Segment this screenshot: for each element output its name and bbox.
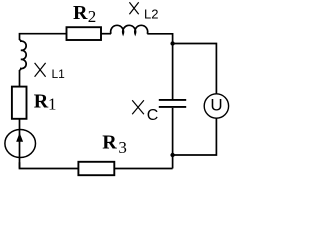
inductor L1 — [20, 40, 27, 70]
label X_C — [132, 100, 144, 114]
voltmeter U circle — [204, 94, 228, 118]
label X_L1 — [35, 63, 46, 77]
svg-text:R: R — [34, 90, 49, 112]
svg-text:L1: L1 — [52, 67, 66, 81]
resistor R3 — [78, 162, 114, 175]
node B junction dot — [170, 153, 174, 157]
svg-text:1: 1 — [48, 94, 57, 113]
wire capacitor to node B — [172, 108, 174, 169]
wire node B to R3 — [114, 168, 172, 170]
wire R1 to L1 — [19, 70, 21, 87]
svg-text:L2: L2 — [144, 6, 158, 21]
svg-text:3: 3 — [118, 138, 127, 157]
resistor R2 — [67, 27, 102, 40]
wire top-left to R2 — [20, 34, 67, 40]
label X_L2 — [129, 2, 138, 14]
inductor L2 — [111, 25, 148, 33]
current source I1 circle — [5, 130, 36, 158]
capacitor C bottom plate — [159, 106, 186, 108]
svg-text:2: 2 — [88, 7, 97, 26]
wire node A down to capacitor — [172, 44, 174, 100]
wire R2 to L2 — [101, 33, 111, 35]
wire R3 to bottom-left corner — [20, 162, 79, 168]
svg-text:R: R — [102, 132, 117, 154]
svg-text:R: R — [73, 2, 88, 24]
node A junction dot — [170, 41, 174, 45]
current source arrow — [16, 133, 23, 142]
capacitor C top plate — [159, 99, 186, 101]
wire through current source — [19, 119, 21, 169]
wire L2 to node A — [147, 34, 172, 44]
resistor R1 — [12, 87, 27, 119]
svg-text:C: C — [147, 107, 159, 124]
wire node A to voltmeter branch — [173, 44, 217, 95]
svg-text:U: U — [210, 95, 222, 114]
wire voltmeter bottom to node B — [173, 118, 217, 155]
